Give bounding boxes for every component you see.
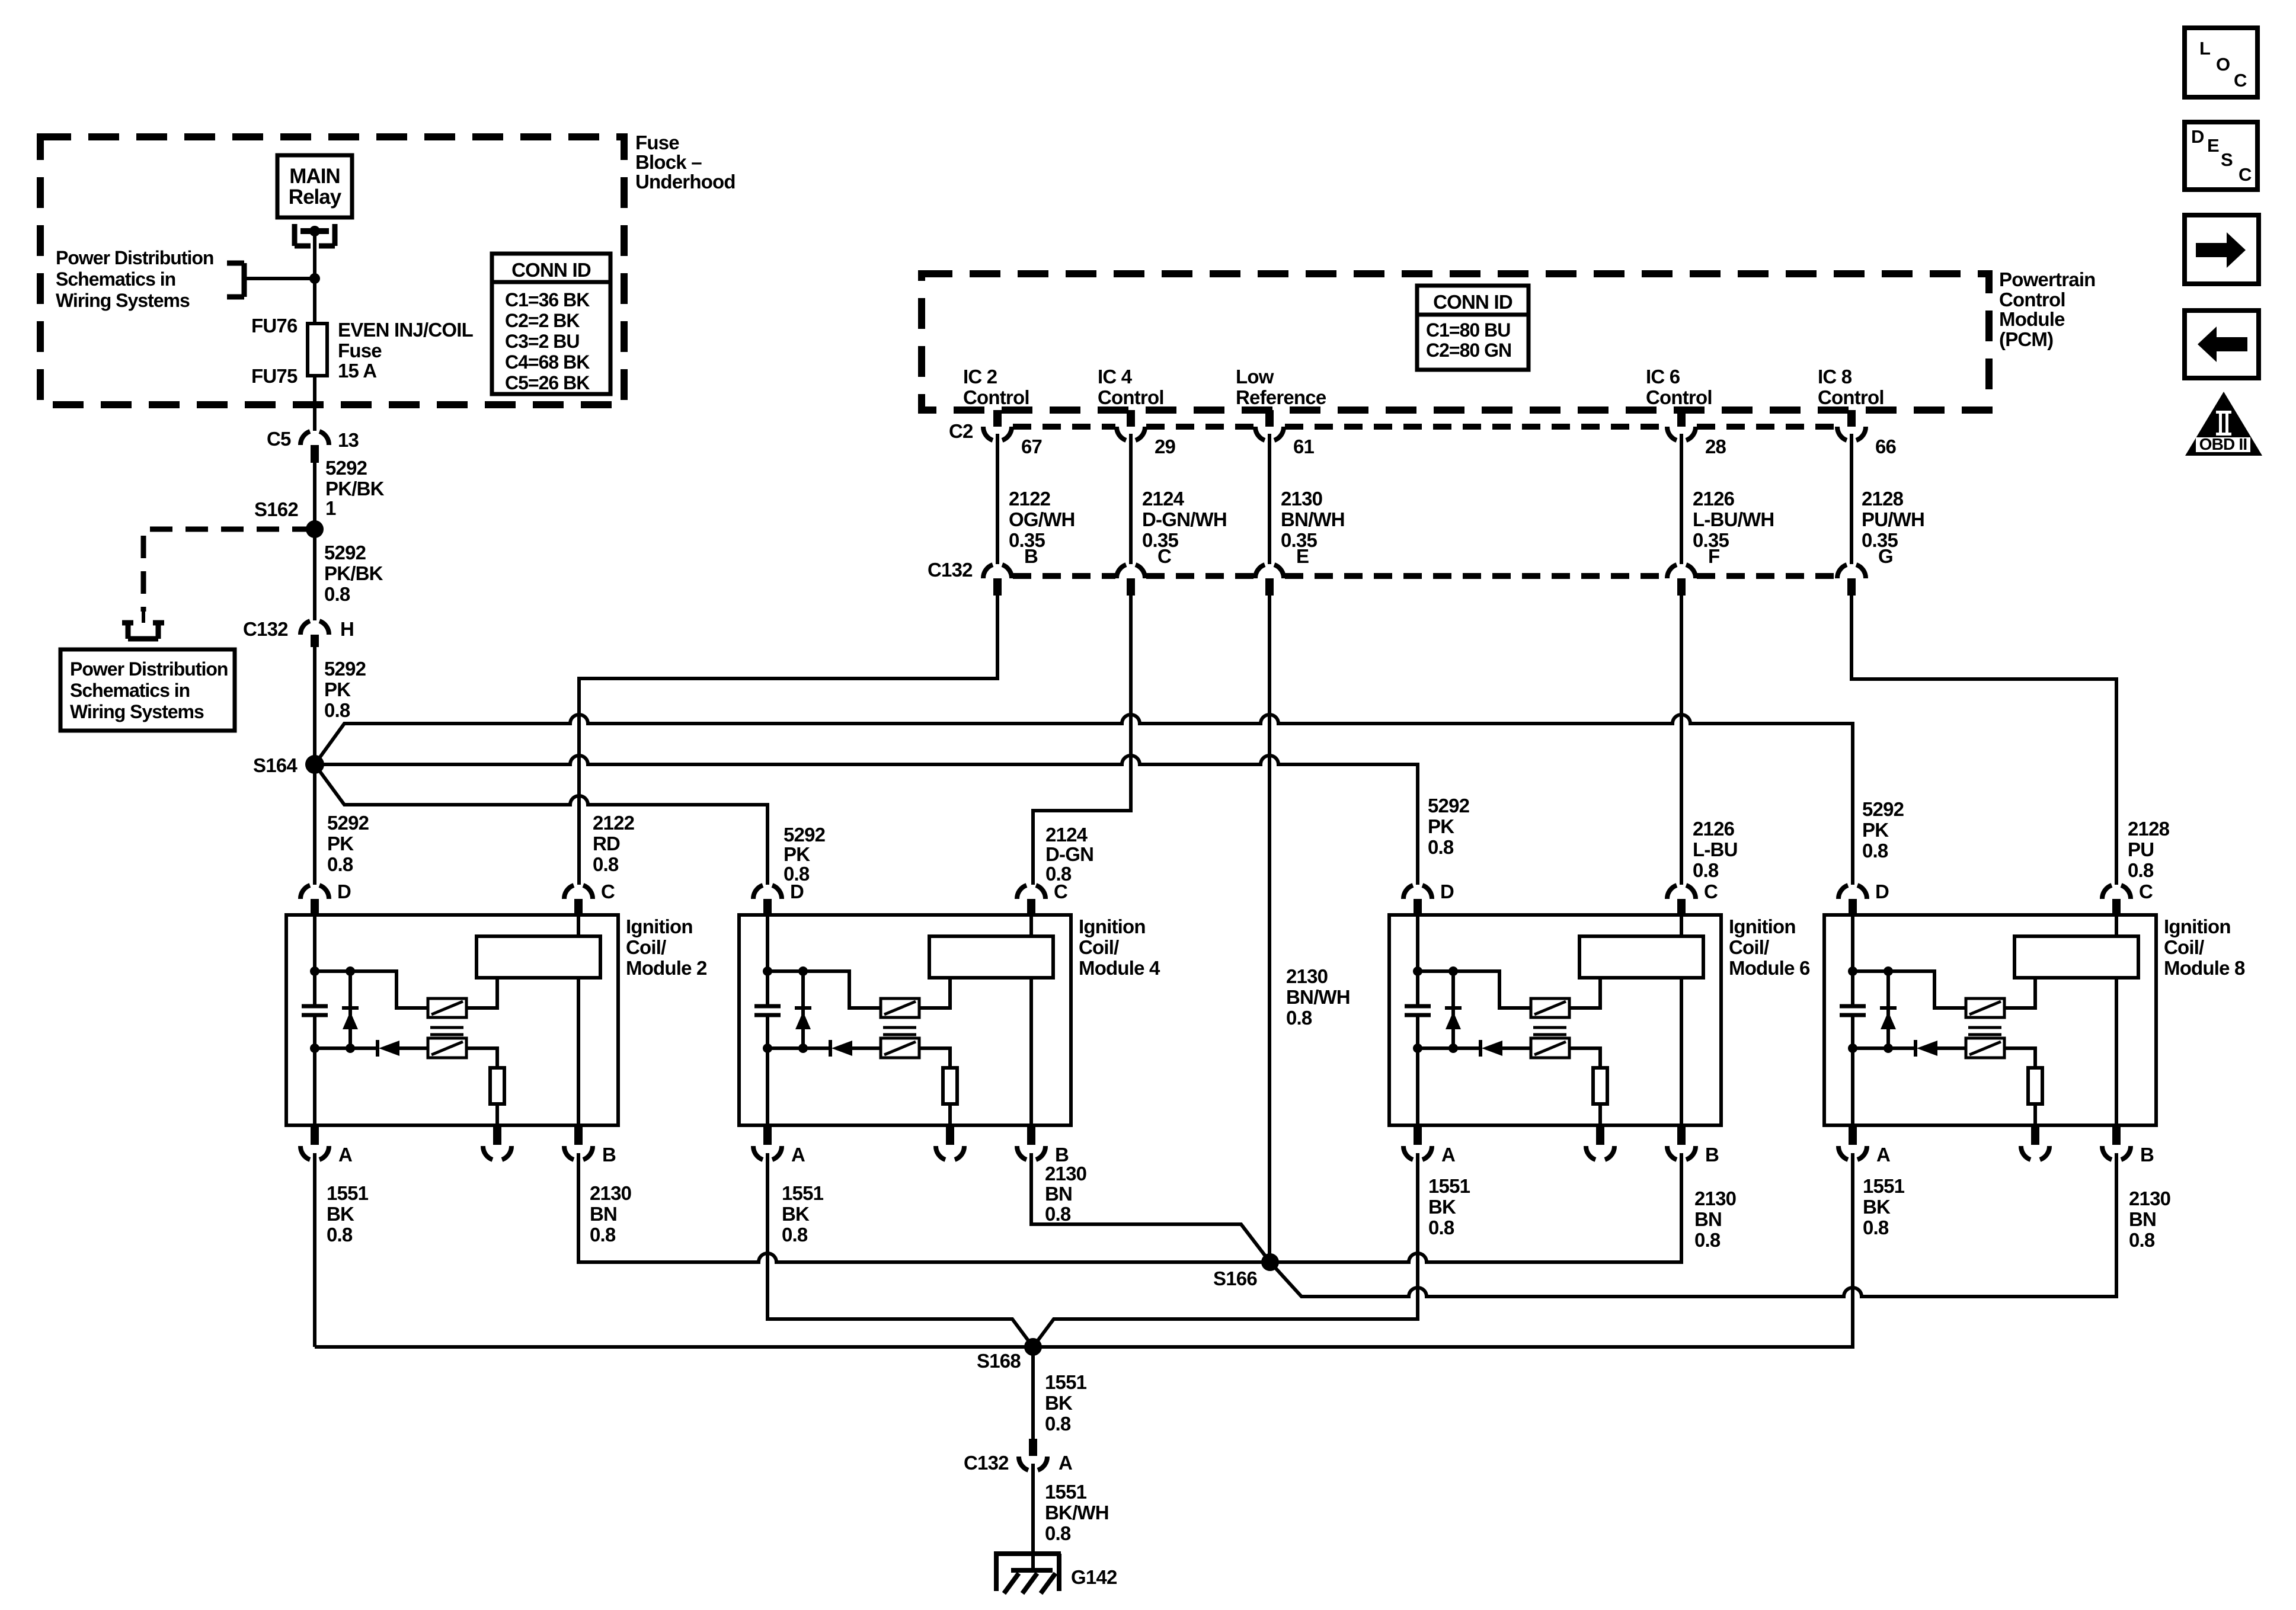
svg-text:Coil/: Coil/ <box>2164 936 2204 958</box>
svg-text:C: C <box>1054 881 1067 902</box>
svg-text:E: E <box>2207 135 2219 156</box>
svg-text:67: 67 <box>1021 436 1042 457</box>
svg-text:MAIN: MAIN <box>289 165 340 188</box>
svg-text:C: C <box>1157 545 1171 567</box>
svg-text:2130: 2130 <box>1045 1163 1086 1185</box>
svg-text:C4=68 BK: C4=68 BK <box>505 351 590 373</box>
svg-text:D-GN: D-GN <box>1045 843 1093 865</box>
svg-text:IC 4: IC 4 <box>1098 366 1133 388</box>
svg-text:0.8: 0.8 <box>2129 1229 2155 1251</box>
svg-text:A: A <box>791 1144 805 1166</box>
svg-text:29: 29 <box>1155 436 1176 457</box>
svg-text:2130: 2130 <box>1286 965 1328 987</box>
svg-text:FU76: FU76 <box>251 315 298 337</box>
svg-text:A: A <box>1441 1144 1455 1166</box>
svg-text:C132: C132 <box>964 1452 1009 1474</box>
svg-text:Fuse: Fuse <box>338 340 382 361</box>
svg-text:C: C <box>601 881 615 902</box>
svg-text:C1=80 BU: C1=80 BU <box>1426 319 1510 341</box>
svg-text:EVEN INJ/COIL: EVEN INJ/COIL <box>338 319 474 341</box>
svg-text:S168: S168 <box>977 1350 1021 1372</box>
svg-text:Wiring Systems: Wiring Systems <box>70 701 204 722</box>
svg-text:G: G <box>1878 545 1893 567</box>
svg-text:BN/WH: BN/WH <box>1281 508 1345 530</box>
svg-text:C: C <box>2234 70 2247 91</box>
svg-text:Wiring Systems: Wiring Systems <box>56 290 190 311</box>
svg-text:Module 6: Module 6 <box>1729 957 1810 979</box>
svg-text:C3=2 BU: C3=2 BU <box>505 331 580 352</box>
svg-text:0.8: 0.8 <box>1693 859 1719 881</box>
svg-text:L: L <box>2199 38 2210 59</box>
svg-text:BN: BN <box>1045 1183 1072 1205</box>
svg-text:B: B <box>1024 545 1038 567</box>
svg-text:IC 6: IC 6 <box>1646 366 1680 388</box>
svg-text:OG/WH: OG/WH <box>1009 508 1075 530</box>
svg-text:0.8: 0.8 <box>327 853 353 875</box>
svg-text:BN: BN <box>1694 1208 1722 1230</box>
svg-text:FU75: FU75 <box>251 365 298 387</box>
svg-text:Ignition: Ignition <box>1079 916 1146 937</box>
svg-text:Module 4: Module 4 <box>1079 957 1160 979</box>
svg-text:IC 8: IC 8 <box>1818 366 1852 388</box>
svg-text:BN: BN <box>2129 1208 2156 1230</box>
svg-text:2130: 2130 <box>1694 1188 1736 1209</box>
svg-text:Ignition: Ignition <box>2164 916 2231 937</box>
svg-text:2126: 2126 <box>1693 818 1735 840</box>
svg-text:BK: BK <box>327 1203 354 1225</box>
svg-text:Control: Control <box>1098 386 1164 408</box>
svg-text:2124: 2124 <box>1142 488 1185 510</box>
svg-text:CONN ID: CONN ID <box>1433 291 1512 313</box>
svg-text:5292: 5292 <box>327 812 369 834</box>
svg-text:Schematics in: Schematics in <box>70 680 190 701</box>
svg-text:Module: Module <box>1999 308 2065 330</box>
svg-text:Block –: Block – <box>635 151 702 173</box>
svg-text:Power Distribution: Power Distribution <box>56 247 213 268</box>
svg-text:D: D <box>1440 881 1454 902</box>
svg-text:2128: 2128 <box>2128 818 2170 840</box>
svg-text:S166: S166 <box>1213 1267 1257 1289</box>
svg-text:0.8: 0.8 <box>590 1224 616 1246</box>
svg-text:C2: C2 <box>949 420 973 442</box>
svg-text:1551: 1551 <box>1863 1175 1905 1197</box>
svg-text:1551: 1551 <box>1428 1175 1470 1197</box>
svg-text:0.8: 0.8 <box>1694 1229 1721 1251</box>
svg-text:5292: 5292 <box>1428 795 1470 817</box>
svg-text:D: D <box>337 881 351 902</box>
svg-text:Power Distribution: Power Distribution <box>70 658 228 680</box>
svg-text:L-BU: L-BU <box>1693 838 1738 860</box>
svg-text:PK/BK: PK/BK <box>325 478 385 500</box>
svg-text:Ignition: Ignition <box>1729 916 1796 937</box>
svg-text:CONN ID: CONN ID <box>511 259 591 281</box>
svg-text:2126: 2126 <box>1693 488 1735 510</box>
svg-text:C: C <box>2239 164 2252 185</box>
svg-text:2124: 2124 <box>1045 824 1088 846</box>
svg-text:RD: RD <box>593 833 620 854</box>
svg-text:Relay: Relay <box>289 185 342 209</box>
svg-text:D-GN/WH: D-GN/WH <box>1142 508 1227 530</box>
svg-text:BK: BK <box>1045 1392 1073 1414</box>
svg-text:D: D <box>2191 126 2204 147</box>
svg-text:1: 1 <box>325 497 336 519</box>
svg-text:0.8: 0.8 <box>1428 1217 1454 1238</box>
svg-text:2122: 2122 <box>593 812 635 834</box>
svg-text:S164: S164 <box>253 754 298 776</box>
svg-text:2128: 2128 <box>1862 488 1904 510</box>
svg-text:0.8: 0.8 <box>1045 1413 1071 1435</box>
svg-text:BK: BK <box>782 1203 810 1225</box>
svg-text:Coil/: Coil/ <box>1079 936 1119 958</box>
svg-text:Powertrain: Powertrain <box>1999 268 2096 290</box>
svg-text:B: B <box>602 1144 616 1166</box>
svg-text:5292: 5292 <box>324 542 366 564</box>
svg-text:0.8: 0.8 <box>593 853 619 875</box>
svg-text:Module 2: Module 2 <box>626 957 707 979</box>
svg-text:2130: 2130 <box>1281 488 1322 510</box>
svg-text:PK: PK <box>324 678 351 700</box>
svg-text:Module 8: Module 8 <box>2164 957 2245 979</box>
svg-text:Underhood: Underhood <box>635 171 736 193</box>
svg-text:C2=2 BK: C2=2 BK <box>505 310 580 331</box>
svg-text:Fuse: Fuse <box>635 132 679 153</box>
svg-text:Reference: Reference <box>1236 386 1326 408</box>
svg-text:BN: BN <box>590 1203 617 1225</box>
svg-text:O: O <box>2216 54 2230 75</box>
svg-text:IC 2: IC 2 <box>963 366 997 388</box>
svg-text:0.8: 0.8 <box>324 583 350 605</box>
svg-text:BN/WH: BN/WH <box>1286 986 1350 1008</box>
svg-text:61: 61 <box>1293 436 1315 457</box>
svg-text:Coil/: Coil/ <box>1729 936 1769 958</box>
svg-text:(PCM): (PCM) <box>1999 328 2053 350</box>
svg-text:0.8: 0.8 <box>1863 1217 1889 1238</box>
svg-text:2122: 2122 <box>1009 488 1051 510</box>
svg-text:1551: 1551 <box>1045 1481 1087 1503</box>
svg-text:G142: G142 <box>1071 1566 1117 1588</box>
svg-text:PK: PK <box>1428 815 1454 837</box>
svg-text:2130: 2130 <box>590 1182 631 1204</box>
svg-text:Ignition: Ignition <box>626 916 693 937</box>
svg-text:5292: 5292 <box>784 824 826 846</box>
svg-text:1551: 1551 <box>327 1182 369 1204</box>
svg-text:0.8: 0.8 <box>2128 859 2154 881</box>
svg-text:66: 66 <box>1875 436 1897 457</box>
svg-text:5292: 5292 <box>324 658 366 680</box>
svg-text:5292: 5292 <box>1862 798 1904 820</box>
svg-text:Control: Control <box>963 386 1029 408</box>
svg-text:S162: S162 <box>254 498 298 520</box>
svg-text:C: C <box>1704 881 1718 902</box>
svg-text:D: D <box>1875 881 1889 902</box>
svg-text:C2=80 GN: C2=80 GN <box>1426 340 1511 361</box>
svg-text:Control: Control <box>1818 386 1884 408</box>
svg-text:E: E <box>1296 545 1309 567</box>
svg-text:Coil/: Coil/ <box>626 936 666 958</box>
svg-text:L-BU/WH: L-BU/WH <box>1693 508 1774 530</box>
svg-text:BK/WH: BK/WH <box>1045 1502 1109 1523</box>
svg-text:PK: PK <box>327 833 354 854</box>
svg-text:15 A: 15 A <box>338 360 376 382</box>
svg-text:0.8: 0.8 <box>1286 1007 1312 1029</box>
svg-text:F: F <box>1708 545 1719 567</box>
svg-text:B: B <box>1705 1144 1719 1166</box>
svg-text:C: C <box>2139 881 2153 902</box>
svg-text:OBD II: OBD II <box>2199 435 2247 453</box>
svg-text:BK: BK <box>1428 1196 1456 1218</box>
svg-text:0.8: 0.8 <box>1428 836 1454 858</box>
svg-text:0.8: 0.8 <box>1045 1203 1071 1225</box>
svg-text:0.8: 0.8 <box>1045 1522 1071 1544</box>
svg-text:D: D <box>790 881 804 902</box>
svg-text:13: 13 <box>338 429 359 451</box>
svg-text:1551: 1551 <box>1045 1371 1087 1393</box>
svg-text:A: A <box>1876 1144 1890 1166</box>
svg-text:5292: 5292 <box>325 457 367 479</box>
svg-text:PU: PU <box>2128 838 2154 860</box>
svg-text:0.8: 0.8 <box>324 699 350 721</box>
svg-text:2130: 2130 <box>2129 1188 2170 1209</box>
svg-text:PK: PK <box>1862 819 1889 841</box>
svg-text:Schematics in: Schematics in <box>56 268 175 290</box>
svg-text:PU/WH: PU/WH <box>1862 508 1924 530</box>
svg-text:A: A <box>1059 1452 1072 1474</box>
svg-text:C5=26 BK: C5=26 BK <box>505 372 590 393</box>
svg-text:S: S <box>2221 149 2233 170</box>
svg-text:C132: C132 <box>928 559 973 581</box>
svg-text:1551: 1551 <box>782 1182 824 1204</box>
svg-text:C1=36 BK: C1=36 BK <box>505 289 590 311</box>
svg-text:C132: C132 <box>243 618 288 640</box>
svg-text:A: A <box>338 1144 352 1166</box>
svg-text:0.8: 0.8 <box>1862 840 1888 862</box>
svg-text:H: H <box>340 618 354 640</box>
svg-text:Control: Control <box>1646 386 1712 408</box>
svg-text:B: B <box>2140 1144 2154 1166</box>
svg-text:PK/BK: PK/BK <box>324 562 383 584</box>
svg-text:BK: BK <box>1863 1196 1891 1218</box>
svg-text:Control: Control <box>1999 289 2065 311</box>
svg-text:Low: Low <box>1236 366 1274 388</box>
svg-text:28: 28 <box>1705 436 1726 457</box>
svg-text:PK: PK <box>784 843 810 865</box>
svg-text:0.8: 0.8 <box>327 1224 353 1246</box>
svg-text:0.8: 0.8 <box>782 1224 808 1246</box>
svg-text:C5: C5 <box>267 428 291 450</box>
